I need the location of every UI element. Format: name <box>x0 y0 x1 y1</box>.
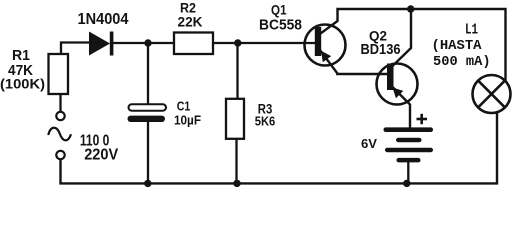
transistor Q2 base bar <box>387 64 394 91</box>
lamp L1 bulb <box>473 75 511 113</box>
svg-text:(100K): (100K) <box>0 76 45 92</box>
svg-text:BC558: BC558 <box>259 17 302 34</box>
svg-text:Q1: Q1 <box>271 3 287 18</box>
svg-text:5K6: 5K6 <box>255 114 276 129</box>
node Q2 collector on top rail <box>407 5 414 12</box>
svg-text:1N4004: 1N4004 <box>78 11 129 28</box>
resistor R1 <box>49 54 69 94</box>
transistor Q1 base bar <box>315 27 321 56</box>
svg-text:L1: L1 <box>465 23 478 39</box>
wire R2 to Q1 base <box>213 42 316 44</box>
Q1 collector to top rail and rail to lamp <box>321 9 506 82</box>
resistor R2 <box>174 33 213 55</box>
Q1 emitter to Q2 base <box>320 50 390 75</box>
svg-text:BD136: BD136 <box>361 41 401 58</box>
wire battery to bottom rail <box>407 162 409 184</box>
wire R1 bottom to terminal <box>59 94 61 112</box>
wire R3 to bottom rail <box>235 139 237 184</box>
Q1 emitter arrow <box>321 51 331 63</box>
node R3 bottom <box>233 180 240 187</box>
svg-text:220V: 220V <box>84 147 118 164</box>
node at R3 top <box>234 39 241 46</box>
node battery bottom <box>403 180 410 187</box>
node C1 bottom <box>144 180 151 187</box>
svg-text:500 mA): 500 mA) <box>433 54 491 70</box>
AC terminal bottom <box>56 151 64 159</box>
svg-text:(HASTA: (HASTA <box>432 38 483 54</box>
battery B1 plus sign <box>417 114 428 124</box>
svg-text:22K: 22K <box>178 14 203 30</box>
bottom rail <box>61 112 498 183</box>
node at C1 top <box>144 39 151 46</box>
wire node down to R3 <box>236 43 238 99</box>
Q2 emitter arrow <box>393 88 404 99</box>
transistor Q1 <box>305 25 346 66</box>
Q2 collector to top rail <box>393 9 412 66</box>
battery B1 plates <box>384 127 434 162</box>
svg-text:R1: R1 <box>12 48 30 64</box>
svg-text:6V: 6V <box>361 137 378 151</box>
svg-text:C1: C1 <box>177 99 191 114</box>
AC sine symbol <box>48 128 71 141</box>
wire C1 to bottom rail <box>147 122 149 184</box>
transistor Q2 <box>377 64 418 105</box>
capacitor C1 <box>128 104 167 122</box>
diode D1 1N4004 <box>89 32 113 56</box>
AC terminal top <box>56 112 64 120</box>
resistor R3 <box>226 99 244 139</box>
wire diode cathode to R2 <box>112 42 174 44</box>
wire node down to C1 <box>147 43 149 105</box>
svg-text:10µF: 10µF <box>174 113 201 128</box>
lamp L1 cross <box>478 81 505 108</box>
Q2 emitter to battery <box>392 87 410 129</box>
wire R1 top to diode anode <box>61 43 89 56</box>
